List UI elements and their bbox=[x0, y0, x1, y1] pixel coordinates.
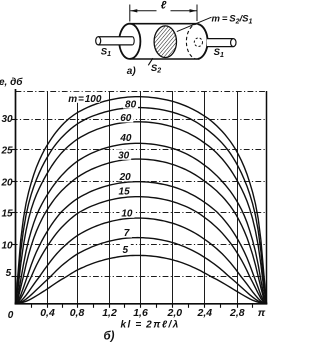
svg-text:ℓ: ℓ bbox=[161, 0, 167, 12]
right boundary axis at pi bbox=[266, 91, 268, 304]
curve m=5 bbox=[16, 255, 267, 303]
x minor ticks (0.2 steps) bbox=[32, 304, 253, 308]
svg-text:60: 60 bbox=[120, 113, 132, 124]
horizontal gridline 25dB bbox=[12, 149, 267, 151]
svg-text:б): б) bbox=[104, 331, 115, 342]
curve m=80 bbox=[16, 108, 267, 304]
vertical gridline kl=0.4 bbox=[47, 91, 49, 304]
curve label 5 bbox=[120, 244, 131, 256]
curve m=7 bbox=[16, 238, 267, 304]
horizontal gridline 15dB bbox=[12, 212, 267, 214]
inlet pipe S1 (left) bbox=[96, 37, 135, 45]
svg-text:5: 5 bbox=[6, 268, 12, 279]
curve m=15 bbox=[16, 197, 267, 304]
svg-text:1,2: 1,2 bbox=[102, 307, 117, 319]
svg-text:е, дб: е, дб bbox=[0, 76, 23, 88]
svg-text:15: 15 bbox=[119, 186, 131, 197]
curve m=100 bbox=[16, 97, 267, 304]
horizontal gridline 30dB bbox=[12, 119, 267, 121]
svg-text:20: 20 bbox=[119, 172, 132, 183]
curve label m=100 bbox=[67, 92, 102, 105]
curve m=10 bbox=[16, 218, 267, 303]
svg-text:10: 10 bbox=[1, 240, 13, 251]
curve m=30 bbox=[16, 159, 267, 303]
svg-text:30: 30 bbox=[118, 151, 130, 162]
x-axis bbox=[15, 303, 268, 305]
svg-text:а): а) bbox=[127, 66, 137, 77]
svg-text:25: 25 bbox=[0, 146, 13, 157]
svg-text:kl = 2πℓ/λ: kl = 2πℓ/λ bbox=[121, 319, 180, 330]
dimension extension line left bbox=[129, 5, 131, 22]
curve label 7 bbox=[121, 227, 132, 239]
svg-text:10: 10 bbox=[121, 208, 133, 219]
horizontal gridline 5dB bbox=[12, 276, 267, 278]
svg-text:20: 20 bbox=[0, 177, 13, 188]
svg-text:π: π bbox=[258, 307, 266, 319]
vertical gridline kl=2.8 bbox=[237, 91, 239, 304]
svg-text:30: 30 bbox=[1, 114, 13, 125]
svg-text:2,0: 2,0 bbox=[166, 307, 182, 319]
hidden outlet hole (dashed small ellipse) bbox=[194, 38, 202, 47]
outlet pipe S1 (right) bbox=[207, 39, 237, 47]
svg-text:1,6: 1,6 bbox=[133, 307, 148, 319]
curve label 10 bbox=[119, 207, 134, 219]
vertical gridline kl=1.6 bbox=[140, 91, 142, 304]
curve m=40 bbox=[16, 143, 267, 303]
svg-text:0,4: 0,4 bbox=[40, 307, 55, 319]
dimension extension line right bbox=[196, 5, 198, 22]
leader line to m=S2/S1 bbox=[177, 17, 212, 31]
chamber left end-cap ellipse bbox=[119, 24, 140, 59]
vertical gridline kl=0.8 bbox=[77, 91, 79, 304]
chamber body top line bbox=[130, 23, 198, 25]
y-axis side ticks bbox=[12, 120, 16, 277]
label S2 with leader tick bbox=[148, 58, 153, 65]
vertical gridline kl=2.0 bbox=[172, 91, 174, 304]
chamber right end-cap: visible right arc bbox=[198, 24, 208, 59]
curve label 40 bbox=[118, 132, 133, 144]
vertical gridline kl=2.4 bbox=[204, 91, 206, 304]
svg-text:0: 0 bbox=[8, 310, 14, 321]
svg-text:2,4: 2,4 bbox=[196, 307, 212, 319]
svg-text:15: 15 bbox=[1, 208, 13, 219]
svg-text:80: 80 bbox=[125, 100, 137, 111]
dimension line with arrows bbox=[130, 9, 196, 12]
horizontal gridline 35dB (top) bbox=[16, 91, 267, 93]
svg-text:0,8: 0,8 bbox=[70, 307, 85, 319]
curve m=20 bbox=[16, 182, 267, 304]
curve label 15 bbox=[117, 186, 132, 198]
chamber body bottom line bbox=[130, 58, 198, 60]
curve label 60 bbox=[118, 112, 133, 124]
curve label 80 bbox=[123, 99, 138, 111]
curve label 30 bbox=[116, 149, 131, 161]
horizontal gridline 10dB bbox=[12, 244, 267, 246]
left y-axis bbox=[15, 89, 17, 304]
curve m=60 bbox=[16, 122, 267, 304]
svg-text:5: 5 bbox=[123, 245, 129, 256]
svg-text:m = S2/S1: m = S2/S1 bbox=[212, 14, 253, 26]
svg-text:2,8: 2,8 bbox=[229, 307, 245, 319]
vertical gridline kl=1.2 bbox=[109, 91, 111, 304]
svg-text:40: 40 bbox=[119, 133, 132, 144]
svg-text:m = 100: m = 100 bbox=[68, 94, 102, 105]
chamber right end-cap: hidden (dashed) left half bbox=[186, 24, 197, 59]
horizontal gridline 20dB bbox=[12, 181, 267, 183]
curve label 20 bbox=[118, 171, 133, 183]
svg-text:7: 7 bbox=[124, 228, 130, 239]
